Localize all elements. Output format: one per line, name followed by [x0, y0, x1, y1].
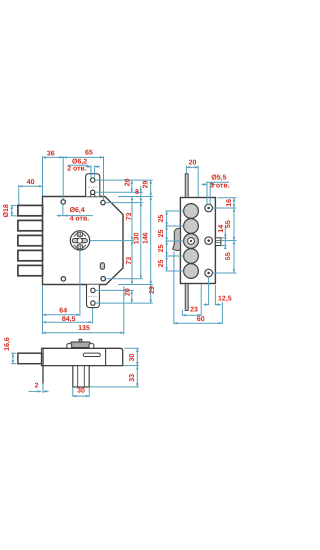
svg-text:16: 16 [226, 199, 233, 207]
svg-text:60: 60 [197, 316, 205, 323]
svg-text:25: 25 [158, 245, 165, 253]
svg-text:Ø6,2: Ø6,2 [72, 157, 87, 165]
svg-text:73: 73 [126, 213, 133, 221]
svg-text:2 отв.: 2 отв. [67, 166, 87, 173]
svg-text:4 отв.: 4 отв. [70, 216, 90, 223]
svg-text:65: 65 [85, 150, 93, 157]
svg-text:29: 29 [142, 181, 149, 189]
svg-text:30: 30 [77, 388, 85, 395]
svg-text:55: 55 [225, 252, 232, 260]
svg-text:20: 20 [189, 159, 197, 166]
svg-text:12,5: 12,5 [218, 296, 232, 303]
svg-text:64: 64 [59, 307, 67, 314]
svg-text:29: 29 [149, 286, 156, 294]
svg-text:23: 23 [190, 306, 198, 313]
svg-text:Ø6,4: Ø6,4 [70, 206, 85, 214]
svg-text:20: 20 [125, 178, 132, 186]
svg-text:2: 2 [35, 382, 39, 389]
svg-text:25: 25 [158, 230, 165, 238]
svg-text:146: 146 [143, 232, 150, 244]
svg-text:Ø18: Ø18 [2, 204, 10, 217]
svg-text:36: 36 [47, 150, 55, 157]
svg-text:33: 33 [129, 374, 136, 382]
svg-text:25: 25 [158, 215, 165, 223]
svg-text:30: 30 [129, 354, 136, 362]
svg-text:40: 40 [27, 179, 35, 186]
svg-text:8: 8 [135, 189, 139, 196]
svg-text:20: 20 [124, 288, 131, 296]
svg-text:25: 25 [158, 260, 165, 268]
svg-text:135: 135 [78, 325, 90, 332]
svg-text:55: 55 [225, 220, 232, 228]
svg-text:3 отв.: 3 отв. [210, 183, 230, 190]
svg-text:14: 14 [218, 225, 225, 233]
svg-text:73: 73 [126, 257, 133, 265]
svg-text:84,5: 84,5 [62, 316, 76, 323]
svg-text:130: 130 [134, 232, 141, 244]
svg-text:Ø5,5: Ø5,5 [211, 174, 226, 182]
svg-text:16,6: 16,6 [4, 337, 11, 351]
